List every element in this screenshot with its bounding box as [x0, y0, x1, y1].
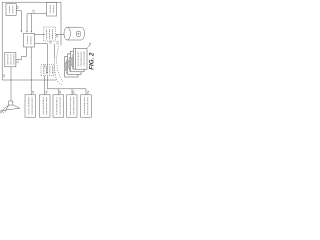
dashed box 2 (36) — [41, 65, 54, 76]
dashed box1 text — [46, 29, 48, 39]
staircase wire central box to left box 12 — [16, 47, 27, 60]
box A text — [28, 97, 30, 115]
wire from box16 to central box with arrow — [16, 11, 21, 31]
box 16 (top-left tuner) — [6, 4, 16, 16]
svg-text:FIG. 2: FIG. 2 — [89, 52, 96, 70]
antenna: line from left box down — [10, 67, 12, 101]
stack label lead — [87, 45, 89, 48]
svg-text:32: 32 — [88, 42, 92, 46]
box D text — [69, 97, 71, 115]
svg-text:24: 24 — [48, 40, 52, 44]
box 17 (top-right) — [47, 2, 57, 16]
svg-text:16: 16 — [16, 6, 20, 10]
wire central box down to box A — [30, 47, 32, 95]
central processor box 20 — [24, 33, 35, 47]
dashed box2 text — [43, 66, 45, 74]
left box 12 (receiver) — [5, 52, 16, 66]
outer enclosure box 10 — [2, 2, 61, 80]
svg-text:40: 40 — [0, 110, 3, 114]
svg-text:36: 36 — [43, 64, 47, 68]
dashed box 1 (smart card 25) — [44, 27, 56, 41]
box C text — [56, 97, 58, 115]
svg-text:50: 50 — [72, 90, 76, 94]
reference numerals — [0, 6, 92, 114]
bottom box E (52) — [81, 95, 92, 117]
svg-text:10: 10 — [2, 74, 6, 78]
svg-text:28: 28 — [55, 34, 59, 38]
bottom box B (46) — [40, 95, 51, 117]
antenna feed square — [9, 101, 13, 105]
bottom box A (44) — [25, 95, 36, 117]
card sliver text — [72, 54, 74, 68]
wire from box17 to central box (two drops with arrows) — [27, 14, 47, 31]
svg-text:44: 44 — [31, 90, 35, 94]
box B text — [42, 97, 44, 115]
sliver texts on behind cards — [65, 57, 74, 71]
svg-text:46: 46 — [44, 90, 48, 94]
wire central box to dashed box 1 with arrow — [35, 34, 44, 36]
svg-text:22: 22 — [31, 9, 35, 13]
box17 text — [49, 5, 51, 13]
wire dashed box1 to cylinder — [56, 34, 64, 36]
cylinder (database 34) — [64, 27, 85, 40]
svg-text:12: 12 — [16, 60, 20, 64]
antenna dish — [2, 105, 20, 113]
wire dashed box2 to box B — [44, 76, 46, 95]
rotated tiny texts inside boxes (squiggle columns) — [8, 5, 88, 115]
box16 text — [8, 6, 10, 14]
svg-text:52: 52 — [86, 90, 90, 94]
svg-text:26: 26 — [56, 41, 60, 45]
stack of cards — [65, 49, 88, 78]
wire central box right then down into dashed box 2 with arrow — [35, 44, 48, 72]
bottom box C (48) — [53, 95, 64, 117]
svg-text:48: 48 — [58, 90, 62, 94]
front card text — [77, 52, 79, 67]
central box text — [27, 36, 29, 44]
bus from dashed box2 to boxes C,D,E — [47, 76, 86, 95]
dashed stack outline — [54, 44, 56, 58]
bottom box D (50) — [67, 95, 77, 117]
box E text — [83, 97, 85, 115]
left box text — [7, 54, 9, 65]
